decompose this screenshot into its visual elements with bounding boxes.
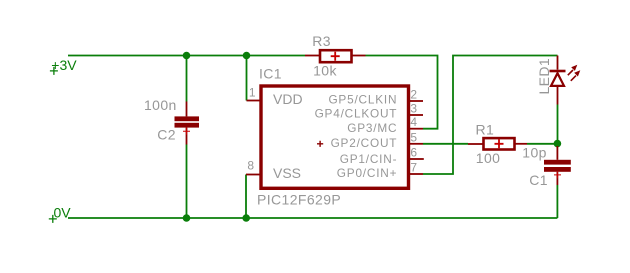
- resistor R3: [305, 33, 366, 78]
- wire C1 bottom to 0V rail: [556, 185, 558, 218]
- wire VDD riser: [246, 56, 248, 101]
- svg-text:5: 5: [410, 130, 417, 144]
- pin 5 stub: [409, 143, 424, 145]
- wire GP0 pin7 to LED top: [423, 56, 558, 175]
- svg-text:100n: 100n: [144, 97, 177, 113]
- wire R1 to node: [527, 143, 557, 145]
- svg-text:100: 100: [476, 150, 501, 166]
- svg-text:8: 8: [247, 159, 254, 173]
- svg-text:10k: 10k: [313, 62, 337, 78]
- pin 4 stub: [409, 128, 424, 130]
- capacitor C1: [522, 144, 571, 188]
- svg-text:GP2/COUT: GP2/COUT: [331, 136, 398, 150]
- IC origin cross: [317, 141, 323, 147]
- svg-text:4: 4: [410, 115, 417, 129]
- wire C2 bottom: [186, 145, 188, 219]
- resistor R1: [468, 122, 527, 166]
- svg-text:GP5/CLKIN: GP5/CLKIN: [328, 93, 397, 107]
- pin 6 stub: [409, 158, 424, 160]
- svg-text:10p: 10p: [522, 144, 547, 160]
- svg-text:0V: 0V: [54, 205, 72, 221]
- svg-text:3: 3: [410, 102, 417, 116]
- capacitor C2: [144, 97, 199, 145]
- wire VSS riser: [245, 175, 247, 219]
- pin 3 stub: [409, 114, 424, 116]
- svg-text:2: 2: [410, 88, 417, 102]
- svg-text:C1: C1: [529, 172, 548, 188]
- op IC1 PIC12F629P body: [261, 86, 409, 188]
- LED LED1: [536, 56, 580, 105]
- svg-text:LED1: LED1: [536, 58, 552, 95]
- pin 1 VDD stub: [247, 100, 260, 102]
- wire GP2 pin5 to R1: [423, 143, 468, 145]
- wire C2 top: [186, 56, 188, 102]
- junction dot top C2: [183, 52, 191, 60]
- svg-text:PIC12F629P: PIC12F629P: [257, 192, 341, 208]
- svg-text:+3V: +3V: [51, 57, 77, 73]
- svg-text:VDD: VDD: [273, 91, 303, 107]
- svg-text:R3: R3: [312, 33, 331, 49]
- supply +3V symbol: [50, 57, 77, 75]
- svg-text:1: 1: [249, 86, 256, 100]
- svg-text:6: 6: [410, 146, 417, 160]
- svg-text:7: 7: [410, 161, 417, 175]
- svg-text:C2: C2: [157, 127, 176, 143]
- svg-text:GP1/CIN-: GP1/CIN-: [340, 152, 398, 166]
- svg-text:IC1: IC1: [259, 66, 282, 82]
- svg-text:GP0/CIN+: GP0/CIN+: [337, 166, 398, 180]
- wire top rail right of R3 to pin4 corner: [366, 56, 438, 129]
- pin 2 stub: [409, 100, 424, 102]
- svg-text:GP4/CLKOUT: GP4/CLKOUT: [315, 107, 398, 121]
- wire 0V rail bottom: [68, 217, 557, 219]
- junction dot bottom VSS: [242, 214, 250, 222]
- supply 0V symbol: [49, 205, 71, 223]
- junction dot top VDD: [243, 52, 251, 60]
- svg-text:R1: R1: [476, 122, 495, 138]
- junction dot bottom C2: [183, 214, 191, 222]
- junction node R1 C1 LED: [554, 140, 562, 148]
- svg-text:VSS: VSS: [273, 165, 301, 181]
- svg-text:GP3/MC: GP3/MC: [347, 121, 397, 135]
- pin 7 stub: [409, 173, 424, 175]
- pin 8 VSS stub: [246, 174, 260, 176]
- wire LED cathode lower to node: [557, 105, 559, 144]
- wire +3V rail top left: [68, 55, 305, 57]
